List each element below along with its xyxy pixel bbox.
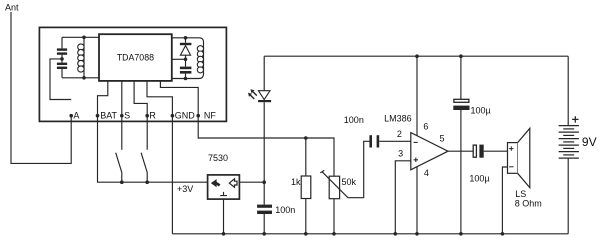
svg-text:S: S [124,110,130,120]
svg-text:100µ: 100µ [469,174,489,184]
svg-text:100n: 100n [344,115,364,125]
svg-text:4: 4 [424,168,429,178]
svg-text:100µ: 100µ [471,106,491,116]
svg-text:6: 6 [423,121,428,131]
svg-text:9V: 9V [582,135,597,149]
svg-text:7530: 7530 [208,153,228,163]
svg-text:LM386: LM386 [384,113,412,123]
svg-text:50k: 50k [342,177,357,187]
svg-text:GND: GND [175,110,196,120]
svg-text:TDA7088: TDA7088 [117,53,154,63]
svg-text:BAT: BAT [100,110,117,120]
svg-text:+3V: +3V [177,184,193,194]
svg-text:8 Ohm: 8 Ohm [515,198,542,208]
svg-text:3: 3 [398,148,403,158]
svg-text:A: A [73,110,79,120]
svg-text:2: 2 [397,129,402,139]
svg-text:LS: LS [515,189,526,199]
svg-text:100n: 100n [275,205,295,215]
svg-text:1k: 1k [291,177,301,187]
svg-text:5: 5 [440,133,445,143]
svg-text:NF: NF [204,110,216,120]
svg-text:R: R [149,110,156,120]
svg-text:Ant: Ant [5,3,19,13]
